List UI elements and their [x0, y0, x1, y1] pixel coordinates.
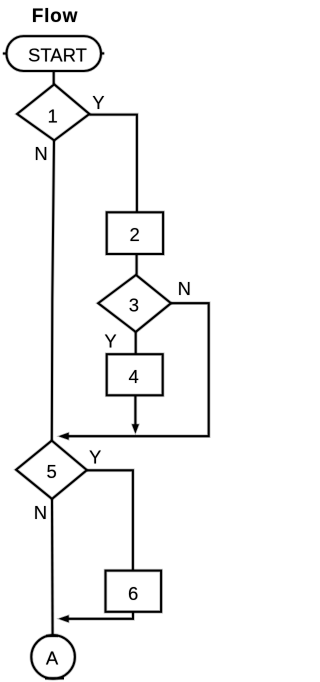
- svg-text:3: 3: [129, 295, 139, 316]
- svg-text:4: 4: [129, 366, 139, 387]
- svg-text:Y: Y: [92, 92, 104, 113]
- svg-text:Y: Y: [89, 447, 101, 468]
- svg-text:1: 1: [47, 105, 57, 126]
- svg-text:Flow: Flow: [32, 6, 78, 27]
- svg-text:Y: Y: [104, 331, 116, 352]
- svg-text:A: A: [46, 648, 59, 669]
- svg-text:6: 6: [128, 583, 138, 604]
- svg-text:N: N: [34, 502, 47, 523]
- svg-text:START: START: [28, 45, 87, 66]
- svg-text:5: 5: [47, 461, 57, 482]
- svg-text:2: 2: [129, 224, 139, 245]
- svg-text:N: N: [34, 143, 47, 164]
- svg-text:N: N: [178, 278, 191, 299]
